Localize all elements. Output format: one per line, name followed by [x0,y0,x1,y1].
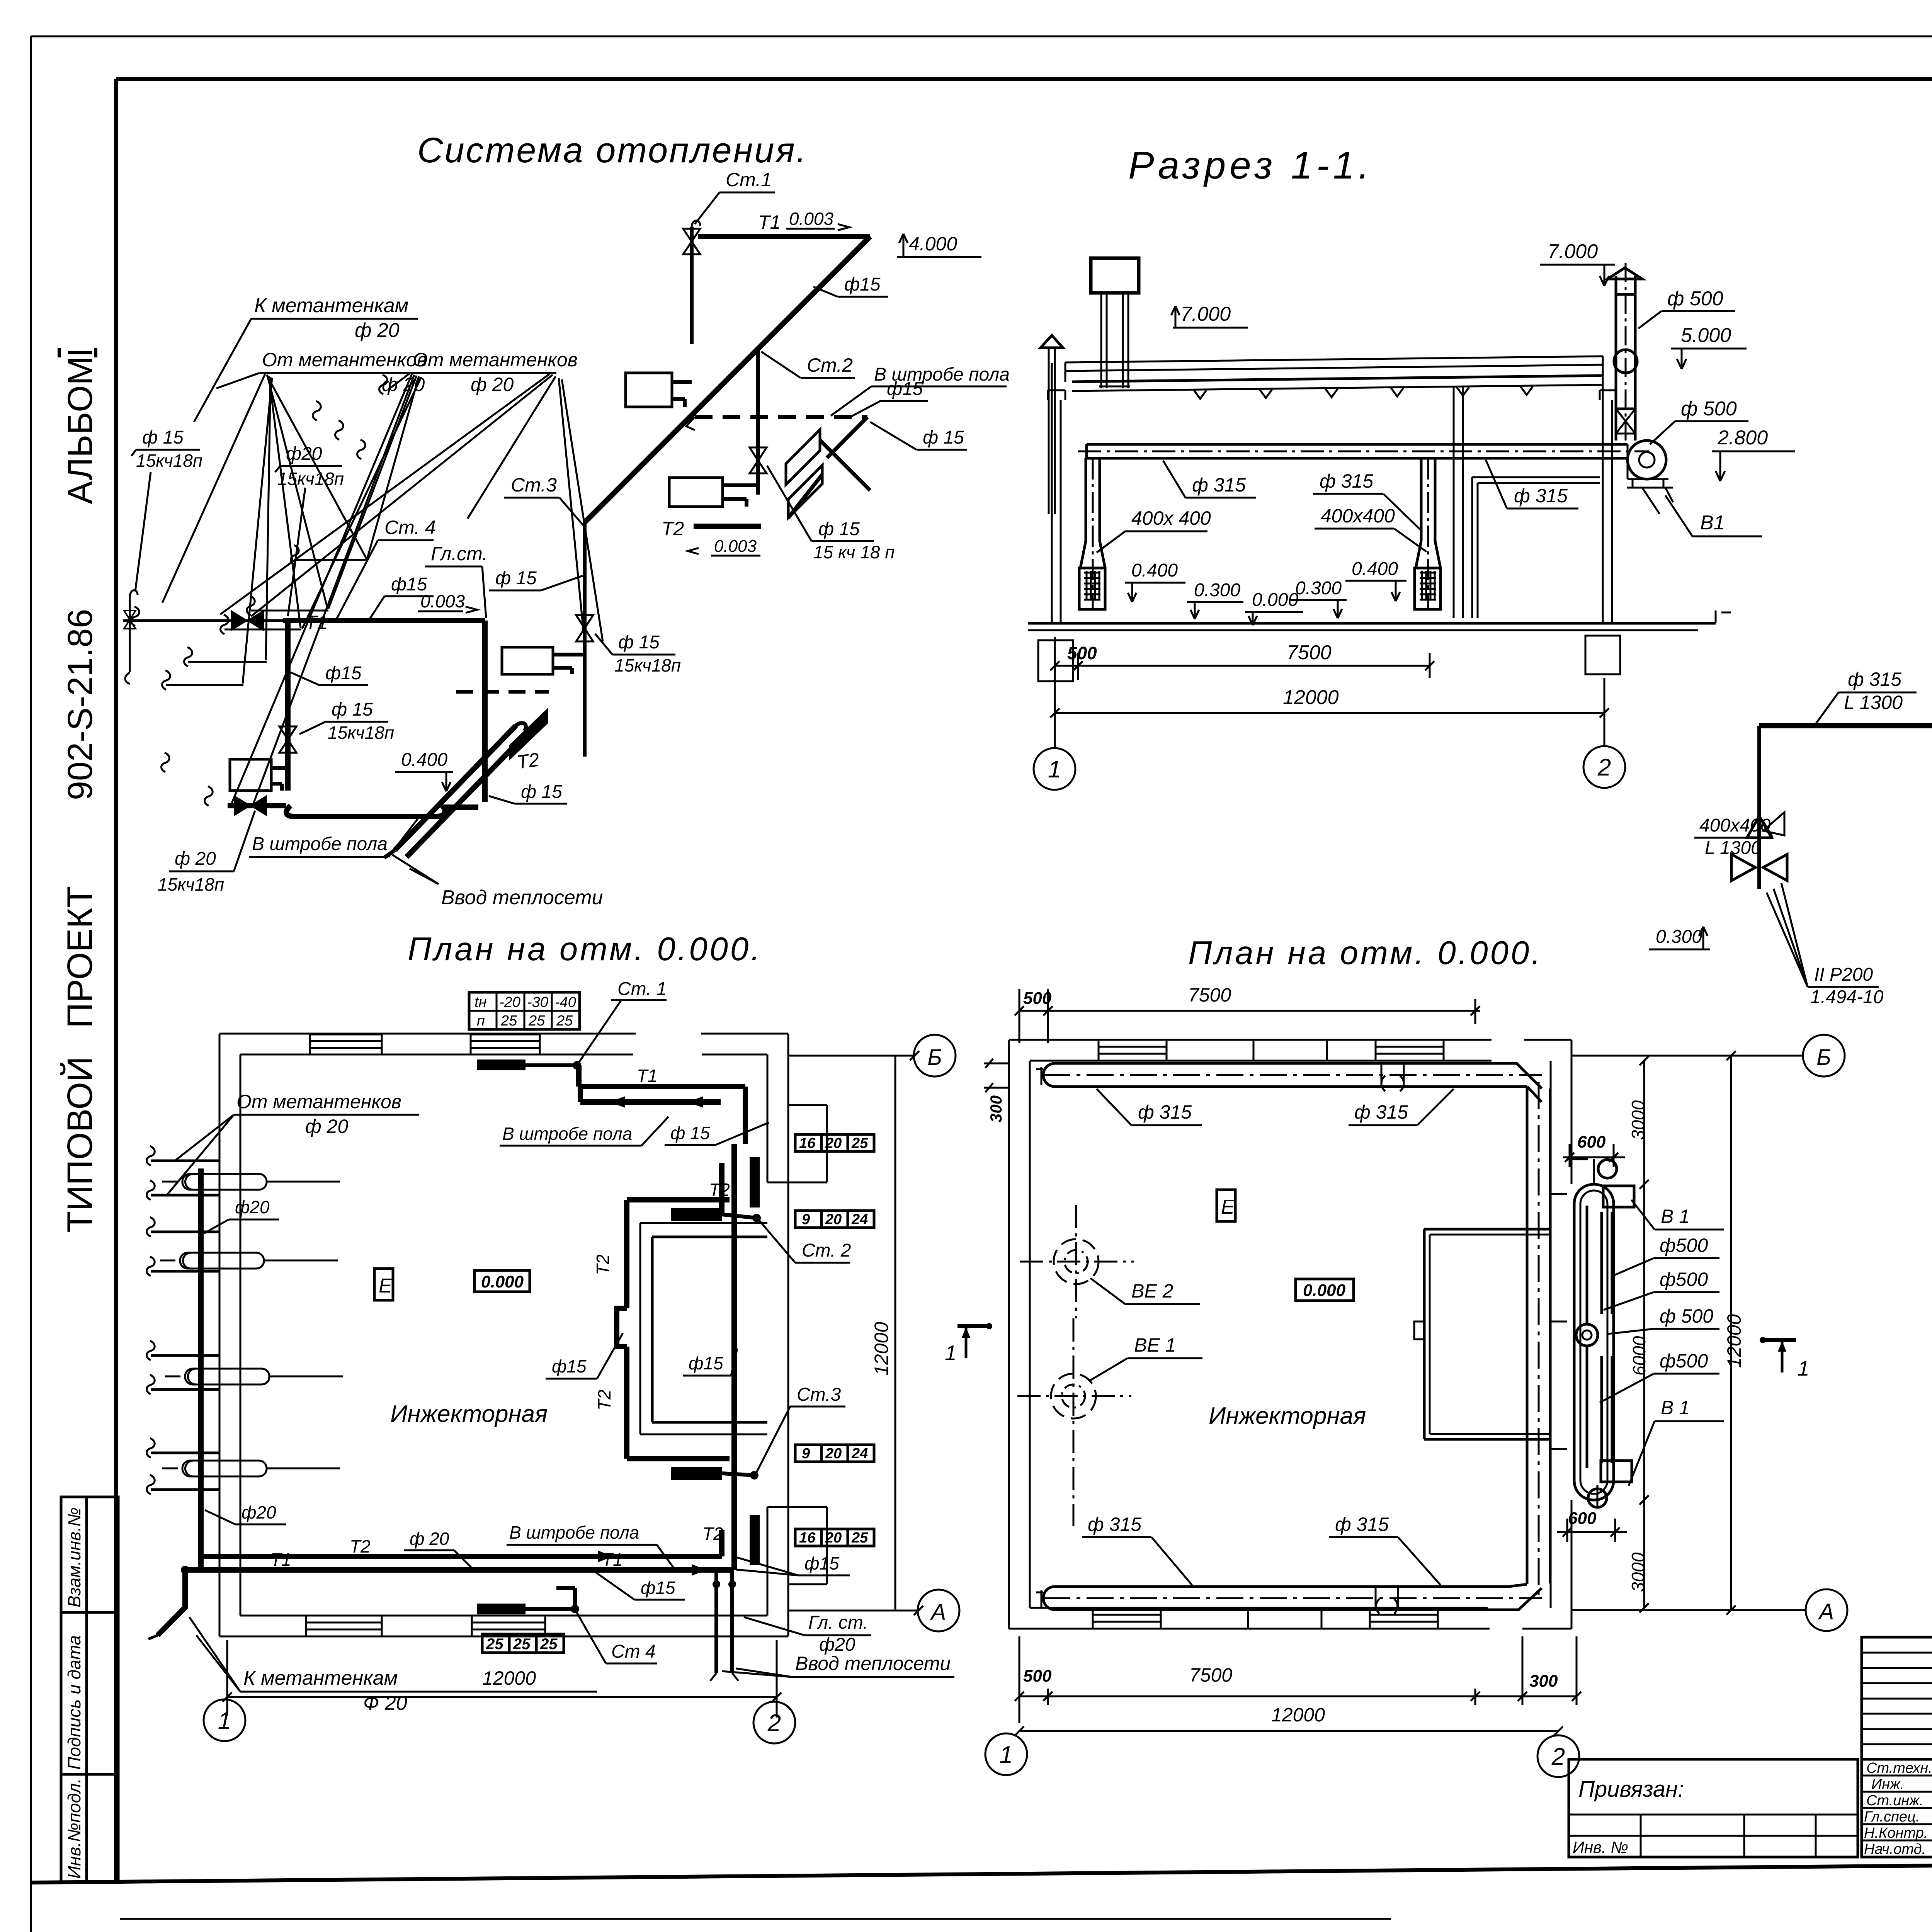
middle wall [1454,386,1463,618]
svg-text:1: 1 [1798,1356,1810,1380]
wall openings bottom [306,1616,545,1636]
revision grid [1862,1637,1932,1759]
svg-text:ф500: ф500 [1660,1269,1708,1290]
svg-text:В штробе пола: В штробе пола [509,1522,639,1543]
duct ф315 bottom run [1036,1584,1542,1614]
svg-text:Т2: Т2 [594,1389,614,1410]
attachment table Привязан [1569,1759,1858,1857]
svg-text:ПРОЕКТ: ПРОЕКТ [60,886,100,1028]
svg-text:2: 2 [767,1710,781,1736]
loop bottom pipe in floor [228,796,478,816]
svg-text:ф 315: ф 315 [1335,1514,1389,1535]
svg-text:ф 20: ф 20 [471,374,514,395]
svg-text:300: 300 [1529,1672,1558,1690]
svg-text:Е: Е [1221,1196,1235,1218]
radiator St.4 (plan, black) [477,1588,657,1663]
dashed channel at St.3 [456,690,549,694]
svg-text:Система отопления.: Система отопления. [417,131,808,170]
svg-text:Т1: Т1 [758,211,781,233]
left wall column [1048,363,1065,623]
svg-text:0.400: 0.400 [401,750,447,770]
svg-text:Б: Б [1816,1045,1831,1070]
label От метантенков ф20 (plan) [166,1091,419,1196]
level 0.300 (R3) [1649,927,1710,949]
exhaust shaft BE1 [1017,1318,1202,1526]
duct drop 2 (400x400) [1416,458,1440,611]
svg-text:L 1300: L 1300 [1844,692,1903,713]
svg-text:0.400: 0.400 [1352,559,1398,579]
axis circle 2 (vent) [1537,1735,1579,1777]
svg-text:25: 25 [528,1013,545,1029]
svg-text:К метантенкам: К метантенкам [243,1667,398,1689]
svg-text:ф500: ф500 [1660,1350,1708,1372]
svg-text:Ст. 1: Ст. 1 [617,979,667,999]
label ф15 (main T1) [370,574,434,618]
label От метантенков ф20 (left) [216,349,427,395]
svg-text:ф 500: ф 500 [1667,287,1723,310]
svg-text:25: 25 [513,1636,531,1653]
svg-text:300: 300 [987,1095,1005,1122]
svg-text:0.300: 0.300 [1656,927,1702,947]
svg-text:ф 315: ф 315 [1138,1101,1192,1123]
svg-text:3000: 3000 [1628,1552,1648,1592]
labels 400x400 in section [1097,507,1211,553]
wall openings top [310,1034,540,1054]
svg-text:ф 15: ф 15 [332,699,373,720]
svg-text:ІІ Р200: ІІ Р200 [1814,964,1873,985]
svg-text:0.000: 0.000 [1303,1281,1346,1300]
label ф20 (bottom) [404,1529,473,1570]
vertical dim 12000 (vent) [1723,1051,1745,1615]
svg-text:ф 315: ф 315 [1320,470,1373,492]
label ф15 15кч18п (St.3 valve) [595,632,681,675]
svg-text:0.400: 0.400 [1131,560,1178,581]
svg-text:ф 500: ф 500 [1660,1305,1713,1327]
svg-text:ф 15: ф 15 [495,568,537,588]
svg-text:1: 1 [218,1708,231,1734]
svg-text:Взам.инв.№: Взам.инв.№ [64,1507,84,1607]
section mark 1 (between plans) [945,1323,992,1365]
svg-text:600: 600 [1568,1509,1597,1528]
boxed label 0.000 (vent plan) [1296,1279,1354,1301]
level 2.800 [1712,427,1795,481]
riser St.3 [576,522,593,757]
left margin vertical caption: ТИПОВОЙ ПРОЕКТ 902-S-21.86 АЛЬБОМ I [60,348,100,1233]
radiator St.3 [502,647,585,674]
dimension 500 + 7500 [1050,637,1434,680]
wall openings top (vent) [1099,1040,1444,1061]
svg-text:К метантенкам: К метантенкам [254,294,408,317]
temperature table [469,992,580,1029]
svg-text:Гл.ст.: Гл.ст. [431,543,488,565]
svg-text:16: 16 [799,1135,816,1151]
vertical dimension 12000 (plan right) [871,1056,895,1611]
main diagonal T1 [585,236,870,522]
svg-text:ф 15: ф 15 [670,1123,710,1143]
svg-text:15кч18п: 15кч18п [136,451,202,471]
svg-text:ф20: ф20 [819,1634,855,1655]
svg-text:План на отм. 0.000.: План на отм. 0.000. [1188,935,1543,971]
label ф15 (bottom center) [595,1572,685,1600]
label ф20 15кч18п (bottom valve) [158,811,255,895]
svg-text:В штробе пола: В штробе пола [874,364,1010,385]
svg-text:1: 1 [945,1341,957,1365]
svg-text:От метантенков: От метантенков [262,349,427,371]
roof slab [1065,356,1603,399]
label К метантенкам ф20 [194,294,418,422]
label ф15 (right of parallelogram) [870,422,967,450]
axis circle 2 (section) [1583,746,1625,788]
heat inlet risers (plan) [710,1570,738,1681]
radiator St.1 (plan, black) [477,979,667,1070]
svg-text:Ст. 4: Ст. 4 [384,517,436,538]
level 7.000 right [1540,240,1615,286]
svg-text:9: 9 [802,1211,810,1228]
svg-text:ВЕ 2: ВЕ 2 [1131,1280,1173,1302]
outer walls [219,1034,788,1636]
svg-text:Т2: Т2 [593,1254,613,1275]
pipe T1 (plan top) [579,1065,745,1144]
svg-text:ф 15: ф 15 [618,632,660,653]
svg-text:В 1: В 1 [1661,1206,1690,1227]
boxed label 0.000 (heating plan) [474,1270,530,1292]
vertical riser black bar (right wall) [750,1157,760,1207]
row axis Б (vent) [1571,1035,1845,1077]
svg-text:2: 2 [1551,1743,1565,1770]
svg-text:Т2: Т2 [709,1180,730,1200]
svg-text:Е: Е [379,1275,393,1297]
level mark 7.000 (left chimney) [1171,303,1248,328]
svg-text:Инжекторная: Инжекторная [1209,1403,1366,1429]
dims bottom (vent) [1015,1636,1581,1736]
svg-text:7500: 7500 [1188,984,1231,1006]
inner room (vent plan) [1414,1229,1551,1439]
title: План на отм. 0.000. (vent plan) [1188,935,1543,971]
label B1 in section [1665,495,1762,536]
riser black bar (right wall lower) [750,1515,760,1565]
right foundation [1585,636,1620,674]
svg-text:25: 25 [540,1636,558,1653]
svg-text:15кч18п: 15кч18п [328,723,394,743]
svg-text:-40: -40 [555,994,576,1010]
main loop: T1 horizontal [283,591,485,633]
riser St.1 [692,221,700,344]
left foundation [1038,640,1073,681]
label ф15 (loop riser) [291,663,368,685]
table 25 25 25 [482,1634,564,1653]
label От метантенков ф20 (right) [388,349,578,395]
boxed label Е (vent plan) [1217,1190,1235,1221]
svg-text:2.800: 2.800 [1717,427,1768,449]
axis circle 1 (vent) [985,1733,1027,1775]
svg-text:15кч18п: 15кч18п [158,874,224,895]
svg-text:20: 20 [825,1530,842,1546]
svg-text:16: 16 [799,1530,816,1546]
svg-text:Ст.3: Ст.3 [511,474,557,496]
svg-text:ф20: ф20 [241,1502,276,1522]
label Ввод теплосети (plan) [722,1653,954,1677]
label ф500 top [1638,287,1735,328]
label ф15 15кч18п (St.2 valve) [767,466,895,562]
svg-text:1.494-10: 1.494-10 [1810,987,1884,1007]
axis circle 2 (plan) [753,1702,795,1743]
room label Инжекторная (vent plan) [1209,1403,1366,1429]
label В штробе пола (upper) [831,364,1010,416]
pipes T1 T2 (plan bottom) [185,1530,734,1576]
stub hooks column (left) [162,375,388,806]
svg-text:п: п [477,1013,485,1029]
svg-text:Ввод теплосети: Ввод теплосети [441,886,603,909]
room label Инжекторная (heating plan) [390,1401,548,1427]
stage boxes 16 20 25 (upper) [795,1134,874,1151]
T2 label (lower St.3) [515,748,541,773]
svg-text:ф 20: ф 20 [410,1529,449,1549]
duct ф315 top run [1036,1063,1542,1091]
label Гл.ст. [425,543,488,618]
svg-text:600: 600 [1577,1133,1606,1151]
vertical dims 3000/6000/3000 [1628,1056,1649,1612]
svg-text:Ст.техн.: Ст.техн. [1866,1760,1932,1776]
lower duct ф315 run [1759,723,1932,728]
radiator parallelogram (St.2 right) [786,430,870,518]
left exhaust stub with umbrella [1041,335,1063,514]
label В штробе пола (plan bottom) [507,1522,674,1569]
svg-text:В штробе пола: В штробе пола [502,1124,632,1144]
svg-text:tн: tн [474,994,487,1010]
svg-text:Т1: Т1 [602,1549,623,1570]
label ф15 (plan top) [665,1122,769,1145]
svg-text:ф20: ф20 [286,444,322,464]
dashed pipe in floor channel (upper) [686,417,867,458]
svg-text:12000: 12000 [1723,1314,1745,1368]
svg-text:24: 24 [851,1211,868,1228]
small stub riser far left [124,590,138,684]
svg-text:Инв. №: Инв. № [1573,1838,1628,1856]
svg-text:12000: 12000 [871,1322,892,1376]
stage boxes 9 20 24 (lower) [795,1445,874,1462]
svg-text:А: А [1818,1599,1834,1624]
svg-text:Б: Б [927,1045,942,1070]
svg-text:ф 20: ф 20 [305,1116,348,1137]
level marks row (0.400 / 0.300 / 0.000) [1125,560,1185,602]
left radiator cylinder 1 [162,1174,340,1190]
label Т2 (bottom right) [702,1524,723,1544]
svg-text:ф 15: ф 15 [923,427,964,448]
label ф315 L1300 (lower duct) [1816,668,1917,723]
svg-text:6000: 6000 [1629,1336,1649,1376]
labels ф315 in section [1163,461,1256,498]
svg-text:25: 25 [486,1636,503,1653]
section mark 1 (vent right) [1760,1337,1810,1380]
svg-text:А: А [930,1600,946,1625]
svg-text:0.300: 0.300 [1194,580,1240,600]
svg-text:9: 9 [802,1446,810,1462]
row axis А (plan) [788,1590,959,1631]
svg-text:1: 1 [1000,1742,1013,1768]
svg-text:4.000: 4.000 [909,233,957,255]
svg-text:15кч18п: 15кч18п [614,655,681,675]
pipe T2 (St.2) [662,518,761,556]
svg-text:Ф 20: Ф 20 [363,1692,407,1714]
duct drop 1 (400x400) [1080,458,1105,611]
label ф20 (plan left lower) [205,1502,286,1524]
label IIP200 1.494-10 (R3) [1767,883,1884,1007]
inner room [640,1223,767,1434]
svg-text:ф500: ф500 [1660,1235,1708,1256]
svg-text:Ст.2: Ст.2 [807,354,853,376]
svg-text:ф15: ф15 [804,1553,839,1573]
label Ст.4 [337,517,436,618]
fan in section [1627,440,1673,514]
row axis А (vent) [1571,1589,1847,1631]
svg-text:12000: 12000 [1283,686,1339,709]
svg-text:ВЕ 1: ВЕ 1 [1134,1334,1176,1356]
svg-text:Т2: Т2 [515,748,541,773]
svg-text:400х400: 400х400 [1321,505,1395,527]
svg-text:Инв.№подл.: Инв.№подл. [64,1778,84,1879]
svg-text:Инжекторная: Инжекторная [390,1401,548,1427]
svg-text:Гл. ст.: Гл. ст. [808,1612,868,1633]
svg-text:400х400: 400х400 [1699,815,1770,836]
pipe T1 top [698,209,870,236]
svg-text:План на отм. 0.000.: План на отм. 0.000. [408,931,762,968]
label ф15 15кч18п (far left) [131,427,202,591]
svg-text:От метантенков: От метантенков [236,1091,401,1112]
svg-text:400х 400: 400х 400 [1131,507,1211,529]
svg-text:ф15: ф15 [391,574,427,595]
label ф20 (plan left upper) [204,1197,279,1233]
svg-text:Ст.1: Ст.1 [726,169,772,190]
svg-text:7500: 7500 [1287,641,1332,664]
floor line [1028,611,1731,630]
svg-text:Разрез 1-1.: Разрез 1-1. [1128,144,1373,187]
svg-text:ф15: ф15 [844,274,881,295]
label ф15 15кч18п (loop valve) [299,699,394,743]
title: Разрез 1-1. [1128,144,1373,187]
svg-text:ф 315: ф 315 [1354,1101,1408,1123]
main duct ф315 horizontal [1078,444,1649,458]
svg-text:Ст. 2: Ст. 2 [802,1240,851,1261]
left radiator cylinder 4 [162,1461,340,1476]
labels B1 ф500 stack (vent plan right) [1631,1200,1724,1230]
radiator St.2 [669,478,758,507]
svg-text:ф 15: ф 15 [818,519,860,539]
pipe T2 riser (plan right) [709,1144,734,1570]
svg-text:Гл.спец.: Гл.спец. [1864,1809,1920,1825]
labels ф315 (vent bottom) [1082,1514,1192,1585]
dimension 12000 (plan bottom) [223,1640,781,1718]
svg-text:ф 315: ф 315 [1848,668,1901,690]
left wall pipe vertical [198,1168,204,1570]
svg-text:2: 2 [1597,754,1611,781]
axis circle 1 (section) [1034,748,1075,790]
svg-text:ф15: ф15 [552,1356,587,1376]
annex walls right [767,1105,827,1584]
grille 1 [1079,568,1105,609]
right column [1600,376,1616,623]
axis circle 1 (plan) [204,1699,245,1741]
level 5.000 [1671,324,1747,369]
svg-text:5.000: 5.000 [1681,324,1731,347]
label ф15 (inner left) [546,1333,623,1379]
svg-text:ф 315: ф 315 [1514,485,1568,507]
svg-text:ф20: ф20 [235,1197,270,1217]
row axis Б (plan) [788,1035,956,1077]
stage boxes 16 20 25 (lower) [795,1529,874,1546]
svg-text:ф 20: ф 20 [175,849,216,869]
label ф15 (bottom right pair) [736,1553,850,1575]
svg-text:500: 500 [1023,1667,1052,1685]
svg-text:L 1300: L 1300 [1705,838,1761,858]
svg-text:Ввод теплосети: Ввод теплосети [795,1653,951,1674]
dim 600 (vent bottom) [1557,1509,1627,1542]
svg-text:I: I [61,348,100,357]
label Гл.ст. ф20 (plan bottom right) [744,1612,871,1655]
svg-text:-30: -30 [527,994,548,1010]
wall openings bottom (vent) [1093,1608,1438,1629]
svg-text:Т2: Т2 [662,518,684,539]
svg-text:Ст 4: Ст 4 [611,1641,656,1662]
svg-text:ф15: ф15 [641,1578,675,1598]
svg-text:15 кч 18 п: 15 кч 18 п [813,542,895,562]
svg-text:ТИПОВОЙ: ТИПОВОЙ [60,1056,100,1233]
label ф15 (St.3 upper) [489,568,583,590]
label ф15 (inner right) [683,1349,737,1376]
svg-text:7.000: 7.000 [1548,240,1598,263]
svg-text:ф 500: ф 500 [1681,398,1737,420]
svg-text:0.003: 0.003 [714,537,757,556]
svg-text:24: 24 [851,1446,868,1462]
svg-text:7500: 7500 [1189,1664,1232,1686]
label Ввод теплосети [392,855,603,909]
left radiator cylinder 2 [160,1253,338,1269]
svg-text:1: 1 [1048,756,1061,783]
radiator St.1 [626,373,692,407]
svg-text:25: 25 [851,1135,868,1151]
svg-text:АЛЬБОМ: АЛЬБОМ [61,356,100,504]
svg-text:ф 15: ф 15 [142,427,184,448]
radiator St.3 (plan, black) [671,1384,845,1480]
labels ф315 (vent top) [1097,1089,1202,1125]
valve on St.1 [683,229,700,254]
svg-text:Подпись и дата: Подпись и дата [64,1635,84,1770]
svg-text:3000: 3000 [1628,1100,1648,1140]
svg-text:25: 25 [556,1013,573,1029]
svg-text:Н.Контр.: Н.Контр. [1864,1825,1928,1841]
svg-text:Т1: Т1 [637,1066,658,1086]
staff table [1862,1759,1932,1876]
svg-text:В1: В1 [1700,512,1725,534]
dim 300 (vent top left, rotated) [984,1059,1009,1122]
grille 2 [1415,568,1440,609]
label Ст.1 [695,169,775,224]
right chimney ф500 with umbrella [1607,263,1642,444]
label ф20 15кч18п (mid) [275,444,344,616]
svg-text:902-S-21.86: 902-S-21.86 [61,609,100,800]
inner room walls [1472,477,1600,618]
black radiator St.3 lower [509,708,548,760]
svg-text:-20: -20 [499,994,520,1010]
svg-text:ф15: ф15 [325,663,362,684]
T2 zigzag pipe inside [593,1200,730,1459]
svg-text:20: 20 [825,1446,842,1462]
title: План на отм. 0.000. (heating plan) [408,931,762,968]
T1 extension left with valve [123,607,283,631]
dim 500+7500 (vent top) [1015,984,1480,1043]
supply hooks left column [147,1146,220,1494]
label Ст.2 [761,352,855,378]
fan unit B1 assembly (plan) [1551,1159,1634,1508]
